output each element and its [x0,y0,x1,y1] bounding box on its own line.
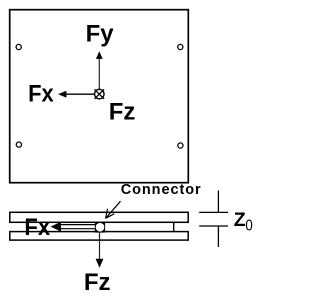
mounting hole top-left [16,44,21,49]
svg-text:Fx: Fx [24,214,50,241]
mounting hole bottom-right [178,143,183,148]
leader arrow from Connector label to connector [106,201,121,218]
svg-text:Fz: Fz [109,99,136,126]
Fz into-page symbol (circle with X) at origin [95,89,105,99]
Fx force arrow (side view, hollow shaft) [51,222,96,232]
Fy axis arrow (up) [96,51,103,89]
svg-text:Fz: Fz [84,269,111,296]
dimension extension line (top) [217,191,219,213]
svg-text:Connector: Connector [121,182,201,198]
svg-text:Z: Z [234,209,246,231]
dimension extension line (bottom) [217,226,219,247]
dimension tick (top surface) [199,211,228,213]
top plate outline (top view) [10,10,189,183]
Fx axis arrow (left) [58,91,95,98]
plate joint line [173,222,175,231]
connector block [95,222,105,233]
dimension tick (origin level) [199,225,228,227]
mounting hole bottom-left [16,142,21,147]
bottom plate (side view) [10,232,188,241]
top plate (side view) [10,212,188,222]
svg-text:Fy: Fy [86,20,115,47]
mounting hole top-right [178,44,183,49]
svg-text:Fx: Fx [28,81,54,108]
Fz force arrow (side view, down) [96,232,104,268]
connector circle [96,223,105,232]
svg-text:0: 0 [245,218,252,235]
